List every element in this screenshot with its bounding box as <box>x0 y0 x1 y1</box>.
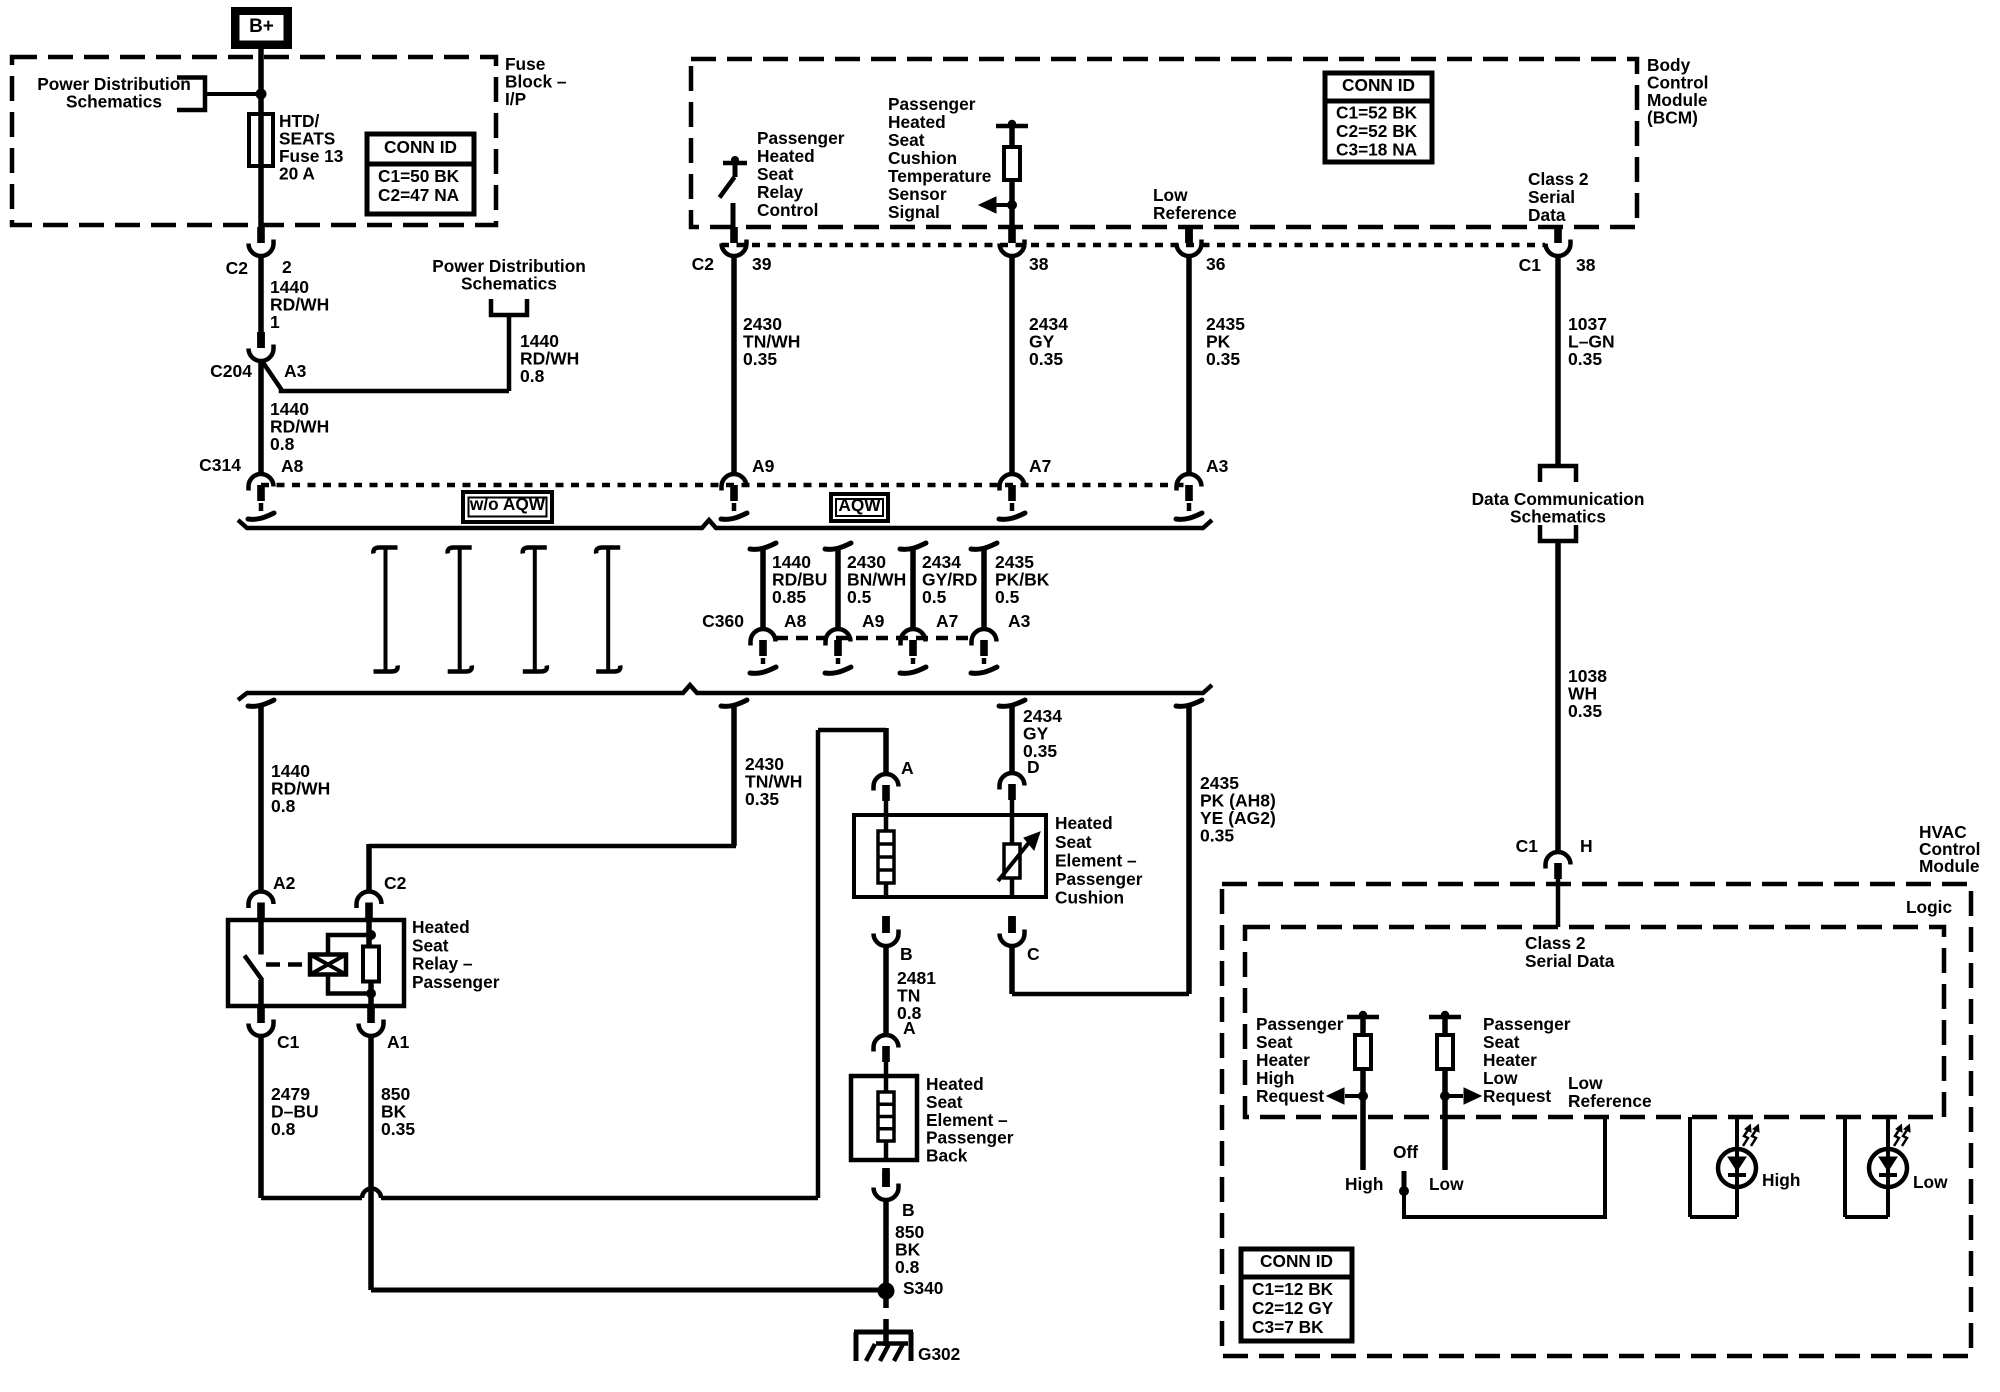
harness bus upper <box>238 520 1212 528</box>
svg-text:Off: Off <box>1393 1142 1418 1162</box>
svg-text:S340: S340 <box>903 1278 943 1298</box>
svg-text:C: C <box>1027 944 1040 964</box>
wire to element A <box>883 728 889 774</box>
svg-text:A1: A1 <box>387 1032 410 1052</box>
wire bracket to B+ feed <box>205 92 259 96</box>
wire C360 drop 1 <box>750 543 776 549</box>
fuse HTD/SEATS Fuse 13 20A <box>249 114 273 166</box>
logic dashed box <box>1245 927 1944 1117</box>
connector C1 pin 38 class 2 <box>1554 227 1562 243</box>
svg-text:C204: C204 <box>210 361 252 381</box>
svg-text:A: A <box>903 1018 916 1038</box>
wire low reference pin stub <box>1187 225 1192 228</box>
wire 1037 L-GN 0.35 class 2 serial data <box>1555 256 1561 466</box>
wire 2435 PK 0.35 <box>1186 256 1192 474</box>
wire class 2 into logic <box>1556 879 1561 927</box>
off-page staple Power Distribution (branch) <box>491 299 527 315</box>
wire 850 BK 0.35 <box>368 1035 374 1290</box>
svg-text:B+: B+ <box>249 16 274 37</box>
seat heater high request branch <box>1347 1015 1379 1020</box>
HVAC control module dashed box <box>1222 884 1971 1356</box>
svg-text:36: 36 <box>1206 254 1226 274</box>
connector A1 relay <box>367 1007 375 1023</box>
svg-text:Low: Low <box>1913 1172 1948 1192</box>
temperature sensor Passenger Heated Seat Cushion <box>996 124 1028 129</box>
svg-text:A3: A3 <box>1206 456 1229 476</box>
in-line harness dotted line C2 row <box>721 243 1545 248</box>
element box Heated Seat Element Passenger Cushion <box>854 815 1046 897</box>
svg-text:AQW: AQW <box>838 495 881 515</box>
connector C2 pin 2 <box>257 227 265 243</box>
wire 850 BK to S340 <box>371 1288 886 1293</box>
splice S340 <box>878 1283 895 1300</box>
label w/o AQW <box>463 492 552 522</box>
wire 850 BK 0.8 <box>883 1199 889 1284</box>
connector C1 relay <box>257 1007 265 1023</box>
wire 2430 TN/WH 0.35 to relay C2 <box>721 700 747 706</box>
fuse block I/P dashed box <box>12 57 496 225</box>
svg-text:C1: C1 <box>277 1032 300 1052</box>
svg-text:38: 38 <box>1029 254 1049 274</box>
wire 2479 D-BU 0.8 <box>258 1035 264 1198</box>
svg-text:C1=12 BKC2=12 GYC3=7 BK: C1=12 BKC2=12 GYC3=7 BK <box>1252 1279 1334 1337</box>
svg-text:2: 2 <box>282 257 292 277</box>
svg-text:G302: G302 <box>918 1344 960 1364</box>
wire to ground <box>883 1299 889 1308</box>
wire C360 drop 3 <box>900 543 926 549</box>
wire B+ vertical <box>258 46 264 228</box>
svg-text:Low: Low <box>1429 1174 1464 1194</box>
off-page bracket Power Distribution <box>177 78 205 111</box>
svg-text:38: 38 <box>1576 255 1596 275</box>
connector B cushion <box>882 916 890 933</box>
driver switch Passenger Heated Seat Relay Control <box>723 161 747 166</box>
svg-text:A3: A3 <box>1008 611 1031 631</box>
element box Heated Seat Element Passenger Back <box>851 1076 917 1160</box>
svg-text:B: B <box>902 1200 915 1220</box>
connector B back element <box>882 1168 890 1187</box>
connector C cushion <box>1008 916 1016 933</box>
svg-text:C1: C1 <box>1519 255 1542 275</box>
junction dot B+ node <box>256 89 267 100</box>
wire branch to power distribution <box>262 361 509 391</box>
svg-text:A9: A9 <box>862 611 885 631</box>
svg-text:C1=52 BKC2=52 BKC3=18 NA: C1=52 BKC2=52 BKC3=18 NA <box>1336 103 1418 160</box>
ground G302 <box>854 1330 913 1335</box>
relay mechanical link dashed <box>266 962 308 967</box>
dotted line C360 row <box>776 636 971 641</box>
wire 2435 PK to C <box>1009 945 1015 994</box>
svg-text:C1: C1 <box>1516 836 1539 856</box>
svg-text:CONN ID: CONN ID <box>384 137 457 157</box>
connector ID table BCM <box>1325 73 1432 162</box>
svg-text:A2: A2 <box>273 873 296 893</box>
relay coil wiring <box>328 935 371 955</box>
svg-text:A7: A7 <box>1029 456 1051 476</box>
heating element back <box>884 1076 889 1092</box>
svg-text:Logic: Logic <box>1906 897 1952 917</box>
svg-text:CONN ID: CONN ID <box>1260 1251 1333 1271</box>
wire 1440 RD/WH 0.8 to relay <box>248 700 274 706</box>
wire 1440 RD/WH 1 <box>258 256 264 333</box>
seat heater low request branch <box>1429 1015 1461 1020</box>
svg-text:H: H <box>1580 836 1593 856</box>
svg-text:C2: C2 <box>226 258 249 278</box>
wire C360 drop 2 <box>825 543 851 549</box>
wire 2434 GY 0.35 to D <box>999 700 1025 706</box>
heating element cushion <box>884 815 889 831</box>
svg-text:C360: C360 <box>702 611 744 631</box>
svg-text:C2: C2 <box>692 254 715 274</box>
off-page staple Data Communication lower <box>1540 525 1576 541</box>
connector pin 36 low reference <box>1185 228 1193 243</box>
svg-text:C1=50 BKC2=47 NA: C1=50 BKC2=47 NA <box>378 166 460 205</box>
relay switch <box>258 907 264 955</box>
harness bus lower <box>238 685 1212 700</box>
BCM dashed box <box>691 59 1637 227</box>
wire 2430 TN/WH 0.35 <box>731 256 737 474</box>
svg-text:CONN ID: CONN ID <box>1342 75 1415 95</box>
connector pin 38 sensor <box>1008 227 1016 243</box>
indicator LED High <box>1688 1117 1692 1217</box>
power symbol B+ <box>231 7 292 49</box>
svg-text:A: A <box>901 758 914 778</box>
wire low reference loop <box>1404 1117 1605 1217</box>
svg-text:A3: A3 <box>284 361 307 381</box>
wire 2434 GY 0.35 <box>1009 256 1015 474</box>
connector C2 pin 39 <box>730 227 738 243</box>
relay coil <box>310 955 346 975</box>
wire C360 drop 4 <box>971 543 997 549</box>
svg-text:A9: A9 <box>752 456 775 476</box>
svg-text:A8: A8 <box>281 456 304 476</box>
label AQW <box>831 494 888 521</box>
off-page staple Data Communication upper <box>1540 466 1576 482</box>
svg-text:High: High <box>1762 1170 1800 1190</box>
switch off contact <box>1402 1171 1407 1189</box>
wire 1440 RD/WH 0.8 to C314 <box>258 360 264 474</box>
unnamed bus circuits ladder symbols <box>384 549 388 671</box>
svg-text:39: 39 <box>752 254 772 274</box>
wire 1038 WH 0.35 <box>1555 541 1561 852</box>
wire 2481 TN 0.8 <box>883 945 889 1035</box>
svg-text:C314: C314 <box>199 455 241 475</box>
wire 2479 horizontal run with hop <box>261 1196 362 1201</box>
relay box Heated Seat Relay Passenger <box>228 920 404 1006</box>
indicator LED Low <box>1843 1117 1847 1217</box>
svg-text:D: D <box>1027 757 1040 777</box>
relay resistor branch <box>366 907 372 947</box>
svg-text:C2: C2 <box>384 873 407 893</box>
svg-text:A7: A7 <box>936 611 958 631</box>
variable resistor temperature sensor <box>1010 815 1015 844</box>
in-line harness dotted line A8 row <box>261 483 1189 488</box>
svg-text:B: B <box>900 944 913 964</box>
connector ID table fuse block <box>367 134 474 214</box>
svg-text:w/o AQW: w/o AQW <box>469 494 546 514</box>
svg-text:A8: A8 <box>784 611 807 631</box>
connector C204 pin A3 <box>257 332 265 348</box>
connector ID table HVAC <box>1241 1249 1352 1341</box>
svg-text:High: High <box>1345 1174 1383 1194</box>
